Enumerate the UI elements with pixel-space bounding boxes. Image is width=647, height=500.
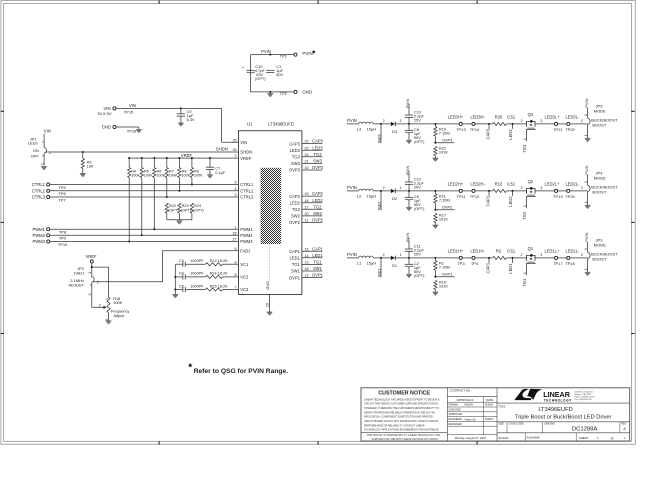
ground C6 [406,207,412,210]
pin 14 LED1 [290,253,324,261]
ground JP4 [585,205,591,208]
svg-text:PVIN: PVIN [302,51,312,56]
svg-text:8/30/07: 8/30/07 [485,418,494,421]
svg-text:CAP2: CAP2 [486,195,491,206]
svg-text:HOWEVER, IT REMAINS THE CUSTOM: HOWEVER, IT REMAINS THE CUSTOMER’S RESPO… [364,407,439,410]
wire LED2 node [506,186,526,196]
terminal GND input [102,125,139,134]
svg-text:1000PF: 1000PF [190,284,204,288]
svg-text:CAP2: CAP2 [312,191,323,196]
svg-text:OVP3: OVP3 [442,138,452,143]
svg-text:28: 28 [232,231,236,235]
wire TP13-TP14 [462,123,472,125]
test point TP12 LED2H- [470,182,486,199]
svg-text:SW2: SW2 [377,201,382,211]
customer notice text [361,398,447,441]
svg-text:D2: D2 [392,196,398,201]
svg-text:LINEAR TECHNOLOGY HAS MADE A B: LINEAR TECHNOLOGY HAS MADE A BEST EFFORT… [364,398,440,401]
svg-text:TP18: TP18 [565,261,575,266]
scale filename sheet row [498,433,625,441]
svg-text:LED1H-: LED1H- [470,249,485,254]
svg-text:1: 1 [584,268,588,270]
test point TP17 LED1L+ [544,249,563,266]
svg-text:8: 8 [235,273,237,277]
wire R9 to line [191,178,193,186]
terminal CTRL2 TP6 [32,188,239,196]
wire VREF rail [129,153,238,158]
size cage dwg rev row [497,422,630,433]
wire TP22 to JP5 [570,119,588,124]
svg-text:ON: ON [33,148,39,153]
terminal PWM1 TP8 [32,227,238,235]
svg-text:1: 1 [523,272,527,274]
wire TP21-TP22 [558,123,567,125]
wire VC common rail [174,264,176,294]
svg-text:14: 14 [305,254,309,258]
svg-text:TP4: TP4 [471,261,479,266]
transistor Q3 [523,112,536,141]
ground R18 [106,321,112,324]
svg-text:PVIN: PVIN [405,166,410,175]
terminal PWM3 TP10 [32,239,238,247]
svg-text:PVIN: PVIN [347,252,357,257]
svg-text:2: 2 [99,303,101,307]
svg-text:2: 2 [235,154,237,158]
wire LED1 node [506,253,526,263]
svg-text:CAP3: CAP3 [486,128,491,139]
svg-text:SIZE: SIZE [498,423,504,426]
svg-text:3: 3 [540,119,542,123]
svg-text:TITLE: TITLE [498,405,505,409]
svg-text:7: 7 [235,286,237,290]
svg-text:LED2L-: LED2L- [565,182,580,187]
wire R22-R24 common [167,219,192,221]
svg-text:PWM1: PWM1 [32,227,45,232]
svg-text:TP12: TP12 [470,194,480,199]
svg-text:C4: C4 [179,272,184,276]
svg-text:TG3: TG3 [522,144,527,153]
svg-text:CAP1: CAP1 [486,262,491,273]
capacitor C7 [206,157,226,175]
svg-text:MODE: MODE [594,108,606,113]
wire CAP1 node [475,257,493,263]
terminal CTRL1 TP5 [32,182,239,190]
capacitor C1 [266,64,283,77]
svg-text:THIS CIRCUIT IS PROPRIETARY TO: THIS CIRCUIT IS PROPRIETARY TO LINEAR TE… [367,434,441,437]
svg-text:TECHNOLOGY: TECHNOLOGY [544,399,572,403]
resistor R9 [190,157,203,178]
svg-text:PWM2: PWM2 [240,233,253,238]
wire LED3 node [506,119,526,129]
pin 16 SW1 [291,266,323,274]
svg-text:C5: C5 [179,284,184,288]
svg-text:VREF: VREF [181,153,193,158]
svg-text:TG1: TG1 [292,262,301,267]
svg-text:TG3: TG3 [314,152,323,157]
svg-text:APPROVED: APPROVED [449,413,463,416]
svg-text:APPROVALS: APPROVALS [457,398,474,402]
capacitor C12 [405,171,425,191]
svg-text:FILENAME: FILENAME [527,436,540,440]
jumper JP4 MODE [584,171,618,206]
svg-text:TP5: TP5 [58,185,66,190]
svg-text:25: 25 [232,138,236,142]
test point TP20 LED2L- [565,182,580,199]
ground VC rail [172,295,178,298]
diode D1 [391,253,437,268]
svg-text:SW3: SW3 [291,161,301,166]
svg-text:GND: GND [302,89,312,94]
capacitor C13 [405,104,425,124]
svg-text:100K: 100K [113,300,122,305]
svg-text:ENGINEER: ENGINEER [449,418,462,421]
resistor R17 [434,213,449,225]
node PVIN channel L1 [347,252,359,258]
resistor R1 [434,258,450,278]
svg-text:2: 2 [521,253,523,257]
ground JP5 [585,138,591,141]
svg-text:OVP3: OVP3 [289,168,301,173]
svg-text:CTRL2: CTRL2 [240,189,254,194]
resistor R4 [128,157,141,178]
terminal VIN input [97,106,116,116]
svg-text:TP16: TP16 [127,128,137,133]
jumper JP3 MODE [584,238,618,273]
svg-text:LED2H-: LED2H- [470,182,485,187]
pin 26 SHDN [232,148,251,155]
capacitor C5 [175,284,204,292]
potentiometer R18 [99,267,130,321]
svg-text:TP13: TP13 [456,127,466,132]
resistor R23 (OPT) [178,203,192,220]
svg-text:SUPPLIED FOR USE WITH LINEAR T: SUPPLIED FOR USE WITH LINEAR TECHNOLOGY … [372,438,439,441]
svg-text:3: 3 [40,163,44,165]
wire CAP2 node [475,190,493,196]
test point TP14 LED3H- [470,115,486,132]
ground R22-R24 [177,221,183,224]
svg-text:LED1H+: LED1H+ [448,249,464,254]
capacitor C4 [175,272,204,280]
svg-text:15µH: 15µH [367,261,377,266]
pin 28 PWM2 [232,231,253,238]
svg-text:4: 4 [235,187,237,191]
svg-text:PWM2: PWM2 [32,233,45,238]
svg-text:1: 1 [88,272,92,274]
capacitor C2 [405,258,425,278]
svg-text:3V-5.5V: 3V-5.5V [97,111,112,116]
wire SW2 node [373,186,391,210]
wire R4 to line [128,178,130,243]
wire TP3-TP4 [462,257,472,259]
pin 11 OVP2 [289,218,324,226]
pin 19 CAP2 [289,191,323,199]
svg-text:R13: R13 [495,182,503,187]
svg-text:SHDN: SHDN [240,150,252,155]
svg-text:2: 2 [581,119,583,123]
svg-text:PVIN: PVIN [405,233,410,242]
pin 4 CTRL2 [235,187,254,194]
svg-text:SHDN: SHDN [216,147,228,152]
svg-text:TP7: TP7 [58,197,66,202]
svg-text:2: 2 [383,253,385,257]
ground R21 [433,158,439,161]
svg-text:17: 17 [305,205,309,209]
svg-text:LED2: LED2 [312,198,323,203]
node OVP3 [435,138,454,143]
svg-text:VC3: VC3 [240,287,249,292]
pin 9 VC1 [235,260,249,267]
capacitor C8 [405,124,425,144]
pin 12 OVP1 [289,273,324,281]
svg-text:CTRL1: CTRL1 [32,182,46,187]
transistor Q2 [523,179,536,208]
pin 22 CAP3 [289,139,323,147]
test point TP1 PVIN [280,50,316,59]
svg-text:29: 29 [266,303,270,307]
svg-text:DWG/NO: DWG/NO [545,423,556,426]
svg-text:DC1288A: DC1288A [572,426,598,432]
wire TP20 to JP4 [570,186,588,191]
svg-text:TP9: TP9 [59,236,67,241]
svg-text:CAP3: CAP3 [312,139,323,144]
svg-text:REV: REV [621,423,626,426]
svg-text:SW1: SW1 [377,268,382,278]
svg-text:TP22: TP22 [565,127,575,132]
inductor L2 [357,189,376,198]
svg-text:TP19: TP19 [553,194,563,199]
svg-text:2: 2 [581,186,583,190]
wire to TP13 [436,123,459,125]
wire TP18 to JP3 [570,253,588,258]
svg-text:6: 6 [235,247,237,251]
svg-text:9: 9 [235,260,237,264]
svg-text:PVIN: PVIN [347,118,357,123]
pin 24 TG3 [292,152,322,160]
svg-text:2: 2 [383,186,385,190]
svg-text:LED1: LED1 [508,263,513,274]
pin 20 SW2 [291,211,323,219]
svg-text:VIN: VIN [240,140,247,145]
inductor L1 [357,256,376,265]
resistor R10 [434,280,449,292]
svg-text:24: 24 [305,153,309,157]
svg-text:OVP2: OVP2 [289,220,301,225]
svg-text:0.51: 0.51 [507,249,516,254]
svg-text:TP21: TP21 [553,127,563,132]
capacitor C11 [405,238,425,258]
ground U1 GND [267,312,273,315]
svg-text:(OPT): (OPT) [255,76,266,81]
jumper JP2 FADJ [68,266,103,307]
svg-text:VC1: VC1 [240,262,249,267]
svg-text:PVIN: PVIN [405,99,410,108]
svg-text:LED2: LED2 [508,196,513,207]
pin 7 VC3 [235,286,249,293]
resistor R5 [140,157,153,178]
svg-text:2: 2 [521,119,523,123]
svg-text:(OPT): (OPT) [414,206,425,211]
svg-text:100K: 100K [144,174,153,178]
svg-text:PVIN: PVIN [584,232,589,241]
svg-text:PERFORMANCE OR RELIABILITY. CO: PERFORMANCE OR RELIABILITY. CONTACT LINE… [364,424,425,427]
svg-text:10K: 10K [87,164,94,169]
svg-text:PWM3: PWM3 [240,239,253,244]
resistor R6 [153,157,166,178]
op-amp U1 LT3496EUFD body [238,122,302,295]
svg-text:3: 3 [88,294,92,296]
svg-text:100K: 100K [181,174,190,178]
svg-text:0.51: 0.51 [507,115,516,120]
svg-text:TP15: TP15 [124,109,134,114]
capacitor C3 [175,259,204,267]
svg-text:SW2: SW2 [313,211,323,216]
svg-text:(OPT): (OPT) [193,209,204,213]
ground C2 [406,274,412,277]
diode D3 [391,119,437,134]
svg-text:CAP3: CAP3 [289,141,300,146]
svg-text:PVIN: PVIN [584,165,589,174]
svg-text:2: 2 [521,186,523,190]
svg-text:CIRCUIT THAT MEETS CUSTOMER-SU: CIRCUIT THAT MEETS CUSTOMER-SUPPLIED SPE… [364,403,439,406]
svg-text:DESIGNER: DESIGNER [449,423,462,426]
svg-text:L2: L2 [357,194,362,199]
svg-text:TECHNOLOGY APPLICATIONS ENGINE: TECHNOLOGY APPLICATIONS ENGINEERING FOR … [364,429,439,432]
logo address text [575,390,596,401]
svg-text:3: 3 [540,253,542,257]
svg-text:R2: R2 [496,249,502,254]
svg-text:BOOST: BOOST [592,190,607,195]
svg-text:1: 1 [584,201,588,203]
svg-text:15: 15 [305,247,309,251]
svg-text:FADJ: FADJ [240,249,250,254]
pin 29 GND stub [266,295,270,312]
svg-text:LED3: LED3 [312,145,323,150]
svg-text:GND: GND [102,125,111,130]
svg-text:TG3: TG3 [292,155,301,160]
test point TP18 LED1L- [565,249,580,266]
svg-text:VC2: VC2 [240,275,249,280]
wire to TP11 [436,190,459,192]
svg-text:LED3L-: LED3L- [565,115,580,120]
svg-text:(OPT): (OPT) [414,139,425,144]
node PVIN channel L2 [347,185,359,191]
wire TP19-TP20 [558,190,567,192]
pin 17 TG2 [292,204,322,212]
svg-text:LEDs: LEDs [28,141,38,146]
title box text [498,405,611,421]
resistor R22 (OPT) [165,203,179,220]
svg-text:0.51: 0.51 [507,182,516,187]
svg-text:APPLICATION. COMPONENT SUBSTIT: APPLICATION. COMPONENT SUBSTITUTION AND … [364,416,433,419]
svg-text:16: 16 [305,267,309,271]
svg-text:CAP2: CAP2 [289,194,300,199]
svg-text:1000PF: 1000PF [190,272,204,276]
svg-text:25V: 25V [414,184,421,189]
svg-text:TP8: TP8 [59,230,67,235]
svg-text:OF: OF [611,438,615,441]
svg-text:LED1: LED1 [290,256,301,261]
svg-text:VIN: VIN [129,103,136,108]
svg-text:HELEN: HELEN [465,404,474,407]
transistor Q1 [523,246,536,275]
resistor R13 sense [493,182,516,193]
pin 27 PWM3 [232,238,253,245]
svg-text:LED3: LED3 [290,148,301,153]
test point TP3 LED1H+ [448,249,466,266]
capacitor C10 [242,64,266,81]
inductor L3 [357,122,376,131]
svg-text:MODE: MODE [594,175,606,180]
test point TP21 LED3L+ [544,115,563,132]
pin 13 TG1 [292,260,322,268]
svg-text:SCALE: SCALE [498,436,508,440]
svg-text:1: 1 [235,225,237,229]
svg-text:OVP2: OVP2 [312,218,324,223]
svg-text:ADJUST: ADJUST [68,282,84,287]
svg-text:TG2: TG2 [522,211,527,220]
svg-text:LED3: LED3 [508,129,513,140]
svg-text:SW3: SW3 [377,134,382,144]
svg-text:Triple Boost or Buck/Boost LED: Triple Boost or Buck/Boost LED Driver [515,415,612,421]
test point TP13 LED3H+ [448,115,467,132]
svg-text:1: 1 [400,186,402,190]
logo box Linear Technology [497,389,630,403]
ground TP16 [138,127,140,129]
svg-text:1: 1 [400,253,402,257]
svg-text:TG1: TG1 [522,278,527,287]
svg-text:CTRL1: CTRL1 [240,182,254,187]
svg-text:CHECKED: CHECKED [449,408,461,411]
pin 15 CAP1 [289,246,323,254]
svg-text:TP3: TP3 [457,261,465,266]
resistor R14 [185,272,238,279]
svg-text:R12 18.2K: R12 18.2K [210,259,228,263]
title block frame [361,388,630,441]
svg-text:PVIN: PVIN [584,98,589,107]
svg-text:CAGE CODE: CAGE CODE [509,423,524,426]
svg-text:OVP1: OVP1 [289,275,301,280]
wire TP17-TP18 [558,257,567,259]
pin 6 FADJ [235,247,251,254]
svg-text:VIN: VIN [44,129,51,134]
svg-text:VREF: VREF [240,156,251,161]
svg-text:LED3L+: LED3L+ [544,115,560,120]
svg-text:SHEET: SHEET [579,436,589,440]
thermal pad crosshatch [261,168,282,244]
svg-text:23: 23 [305,146,309,150]
svg-text:25V: 25V [414,117,421,122]
resistor R21 [434,146,449,158]
svg-text:1: 1 [400,119,402,123]
svg-text:TG2: TG2 [292,207,301,212]
svg-text:VREF: VREF [85,254,97,259]
resistor R15 [185,284,238,291]
customer notice box [378,390,430,396]
svg-text:OFF: OFF [31,154,40,159]
wire R6 to line [153,178,155,231]
pin 10 OVP3 [289,165,324,173]
svg-text:LED1L+: LED1L+ [544,249,560,254]
svg-text:3: 3 [584,181,588,183]
svg-text:LED1L-: LED1L- [565,249,580,254]
svg-text:11: 11 [305,219,309,223]
wire R8 to line [178,178,180,192]
svg-text:7.15M: 7.15M [439,197,450,202]
svg-text:3: 3 [584,114,588,116]
svg-text:FADJ: FADJ [74,270,84,275]
jumper JP5 MODE [584,104,618,139]
svg-text:L1: L1 [357,261,362,266]
